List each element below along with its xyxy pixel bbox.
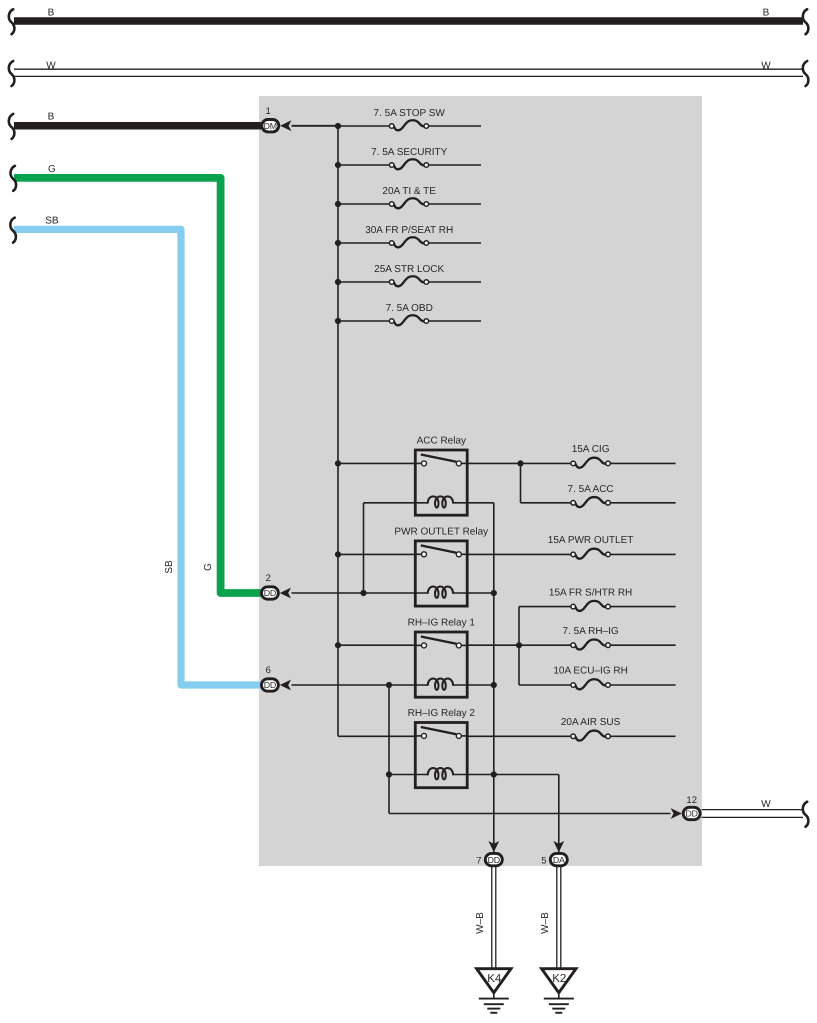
- svg-text:W: W: [761, 60, 771, 71]
- svg-text:G: G: [203, 563, 214, 571]
- svg-text:K2: K2: [552, 973, 566, 985]
- svg-text:7. 5A SECURITY: 7. 5A SECURITY: [371, 147, 447, 158]
- svg-text:PWR OUTLET Relay: PWR OUTLET Relay: [394, 527, 488, 538]
- svg-text:DA: DA: [553, 855, 565, 865]
- svg-text:DD: DD: [686, 809, 698, 819]
- svg-text:7. 5A RH–IG: 7. 5A RH–IG: [563, 626, 619, 637]
- svg-text:G: G: [48, 164, 56, 175]
- svg-text:DD: DD: [264, 680, 276, 690]
- svg-text:15A PWR OUTLET: 15A PWR OUTLET: [548, 535, 634, 546]
- svg-text:30A FR P/SEAT RH: 30A FR P/SEAT RH: [365, 225, 453, 236]
- svg-text:RH–IG Relay 2: RH–IG Relay 2: [408, 708, 476, 719]
- svg-text:2: 2: [266, 573, 271, 584]
- svg-text:15A FR S/HTR RH: 15A FR S/HTR RH: [549, 587, 632, 598]
- svg-text:B: B: [48, 112, 55, 123]
- svg-text:7. 5A OBD: 7. 5A OBD: [386, 303, 433, 314]
- svg-text:25A STR LOCK: 25A STR LOCK: [374, 264, 444, 275]
- svg-text:7. 5A ACC: 7. 5A ACC: [568, 484, 614, 495]
- svg-text:20A AIR SUS: 20A AIR SUS: [561, 717, 621, 728]
- svg-text:ACC Relay: ACC Relay: [417, 436, 466, 447]
- svg-text:DD: DD: [264, 588, 276, 598]
- svg-text:12: 12: [686, 795, 697, 806]
- svg-text:7: 7: [476, 856, 481, 867]
- svg-text:5: 5: [541, 856, 546, 867]
- svg-text:DD: DD: [488, 855, 500, 865]
- svg-text:B: B: [763, 8, 770, 19]
- svg-text:RH–IG Relay 1: RH–IG Relay 1: [408, 618, 476, 629]
- svg-text:W: W: [761, 799, 771, 810]
- svg-text:W–B: W–B: [540, 912, 551, 934]
- svg-text:W–B: W–B: [475, 912, 486, 934]
- svg-text:SB: SB: [164, 560, 175, 574]
- svg-text:B: B: [48, 8, 55, 19]
- svg-text:7. 5A STOP SW: 7. 5A STOP SW: [374, 108, 446, 119]
- svg-text:10A ECU–IG RH: 10A ECU–IG RH: [553, 666, 627, 677]
- svg-text:1: 1: [266, 106, 271, 117]
- svg-text:6: 6: [266, 665, 271, 676]
- svg-text:W: W: [46, 60, 56, 71]
- svg-text:20A TI & TE: 20A TI & TE: [382, 186, 436, 197]
- svg-text:15A CIG: 15A CIG: [572, 444, 610, 455]
- svg-text:SB: SB: [45, 216, 59, 227]
- svg-text:K4: K4: [487, 973, 502, 985]
- svg-text:DM: DM: [264, 121, 277, 131]
